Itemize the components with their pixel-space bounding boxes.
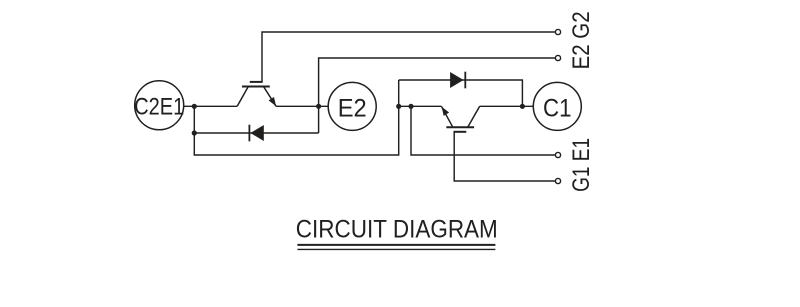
wire E1 node to Q1 emitter xyxy=(399,105,442,107)
terminal circle E2 xyxy=(328,82,376,130)
wire diode D1 line xyxy=(399,80,523,106)
arrow emitter Q2 xyxy=(269,97,277,106)
wire E1 node to E1 aux terminal xyxy=(411,106,555,155)
title underline 2 xyxy=(297,248,495,250)
terminal circle C2E1 xyxy=(135,81,184,130)
wire Q1 collector to C1 xyxy=(480,105,534,107)
wire gate Q1 to G1 terminal xyxy=(454,131,555,181)
title underline 1 xyxy=(297,244,495,246)
terminal pin G1 xyxy=(555,178,560,183)
svg-text:G1 E1: G1 E1 xyxy=(568,138,595,192)
wire C2E1 node down and bottom bus to E1/C2 node xyxy=(194,80,398,155)
diode D1 (anti-parallel with Q1, pointing right) xyxy=(450,72,465,89)
svg-text:E2: E2 xyxy=(338,94,367,122)
arrow emitter Q1 xyxy=(442,107,450,116)
junction node E1 bus left xyxy=(396,104,401,109)
wire Q2 emitter to E2 xyxy=(276,105,328,107)
junction node C1 xyxy=(520,104,525,109)
terminal circle C1 xyxy=(533,82,581,130)
wire diode D2 anode branch xyxy=(194,132,318,134)
wire E2 node to E2 aux terminal xyxy=(319,58,556,133)
svg-text:C2E1: C2E1 xyxy=(134,94,184,121)
svg-text:E2 G2: E2 G2 xyxy=(568,11,595,69)
transistor Q1 (IGBT, emitter E1 left / collector C1 right) xyxy=(441,106,479,132)
svg-text:CIRCUIT DIAGRAM: CIRCUIT DIAGRAM xyxy=(296,216,498,244)
junction node diode branch xyxy=(192,130,197,135)
junction node E1 bus right xyxy=(408,104,413,109)
wire C2E1 bus to Q2 collector xyxy=(184,105,238,107)
junction node C2E1/bus xyxy=(192,104,197,109)
terminal pin G2 xyxy=(555,29,560,34)
diode D2 (anti-parallel with Q2, pointing left) xyxy=(249,125,263,142)
transistor Q2 (IGBT, collector C2 left / emitter E2 right) xyxy=(237,82,276,106)
svg-text:C1: C1 xyxy=(543,94,572,122)
terminal pin E2 aux xyxy=(555,55,560,60)
wire gate Q2 to G2 terminal xyxy=(262,32,555,82)
terminal pin E1 aux xyxy=(555,152,560,157)
junction node E2 xyxy=(316,104,321,109)
